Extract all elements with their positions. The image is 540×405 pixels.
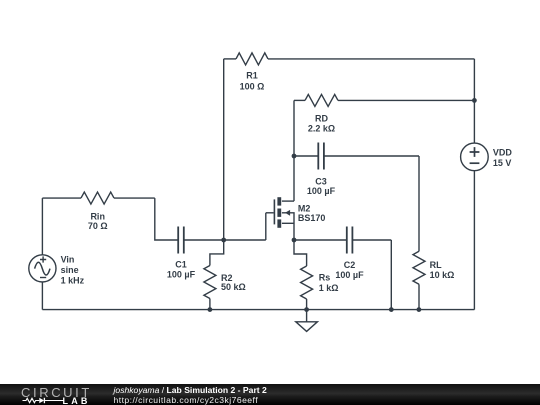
label Rin	[88, 211, 108, 231]
wire C3 to RL vertical	[418, 156, 420, 251]
svg-text:sine: sine	[61, 265, 79, 275]
label R1	[240, 71, 265, 92]
svg-text:RD: RD	[315, 113, 328, 123]
svg-text:R1: R1	[246, 71, 258, 81]
capacitor C2	[347, 227, 392, 254]
ground	[296, 310, 318, 332]
label Vin	[61, 255, 85, 286]
svg-text:100 µF: 100 µF	[335, 270, 364, 280]
svg-text:70 Ω: 70 Ω	[88, 221, 108, 231]
svg-text:BS170: BS170	[298, 213, 326, 223]
label VDD	[493, 147, 513, 168]
node junction R2-ground rail	[208, 307, 213, 312]
resistor R1	[224, 53, 475, 65]
resistor RL	[413, 251, 425, 309]
wire drain vertical	[293, 100, 295, 201]
svg-text:100 µF: 100 µF	[167, 269, 196, 279]
footer bar	[0, 384, 540, 405]
wire node A to gate riser	[224, 239, 266, 241]
resistor R2	[204, 240, 224, 310]
svg-text:VDD: VDD	[493, 147, 513, 157]
wire C2 right down to ground rail	[390, 240, 392, 310]
logo CIRCUIT	[21, 385, 92, 400]
svg-text:50 kΩ: 50 kΩ	[221, 282, 246, 292]
voltage source Vin	[29, 198, 56, 310]
svg-text:C3: C3	[315, 176, 327, 186]
transistor M2 (NMOS)	[266, 197, 294, 240]
label Rs	[319, 273, 339, 294]
node junction C3-drain	[292, 154, 297, 159]
logo squiggle and diode	[22, 396, 92, 405]
capacitor C3	[294, 143, 419, 170]
svg-text:100 µF: 100 µF	[307, 186, 336, 196]
svg-text:Rin: Rin	[90, 211, 105, 221]
svg-text:1 kHz: 1 kHz	[61, 275, 85, 285]
footer title text	[114, 385, 267, 395]
resistor RD	[294, 94, 474, 106]
node A junction (gate node)	[221, 238, 226, 243]
svg-text:1 kΩ: 1 kΩ	[319, 283, 339, 293]
svg-text:C1: C1	[175, 260, 187, 270]
label M2	[298, 204, 326, 223]
label R2	[221, 273, 246, 292]
label C3	[307, 176, 336, 196]
label RL	[430, 260, 455, 280]
wire source node to C2	[294, 239, 347, 241]
resistor Rs	[294, 240, 313, 310]
svg-text:100 Ω: 100 Ω	[240, 81, 265, 91]
label C1	[167, 260, 196, 280]
svg-text:10 kΩ: 10 kΩ	[430, 270, 455, 280]
svg-text:C2: C2	[344, 260, 356, 270]
resistor Rin	[42, 192, 154, 204]
node source junction	[292, 238, 297, 243]
footer url text	[114, 395, 259, 405]
svg-text:2.2 kΩ: 2.2 kΩ	[308, 124, 335, 134]
svg-text:Rs: Rs	[319, 273, 331, 283]
wire Rin to C1	[155, 198, 178, 240]
label C2	[335, 260, 364, 280]
svg-text:RL: RL	[430, 260, 442, 270]
node junction Rs-ground rail	[304, 307, 309, 312]
voltage source VDD	[461, 143, 489, 310]
svg-text:15 V: 15 V	[493, 158, 512, 168]
label RD	[308, 113, 335, 133]
svg-text:Vin: Vin	[61, 255, 75, 265]
node junction C2-ground rail	[389, 307, 394, 312]
node junction RL-ground rail	[417, 307, 422, 312]
wire top right vertical to VDD	[473, 59, 475, 143]
wire ground rail	[42, 309, 474, 311]
logo LAB	[63, 396, 91, 405]
node junction RD-VDD	[472, 98, 477, 103]
capacitor C1	[178, 227, 224, 254]
wire top net: R1 left vertical to node A	[223, 59, 225, 240]
